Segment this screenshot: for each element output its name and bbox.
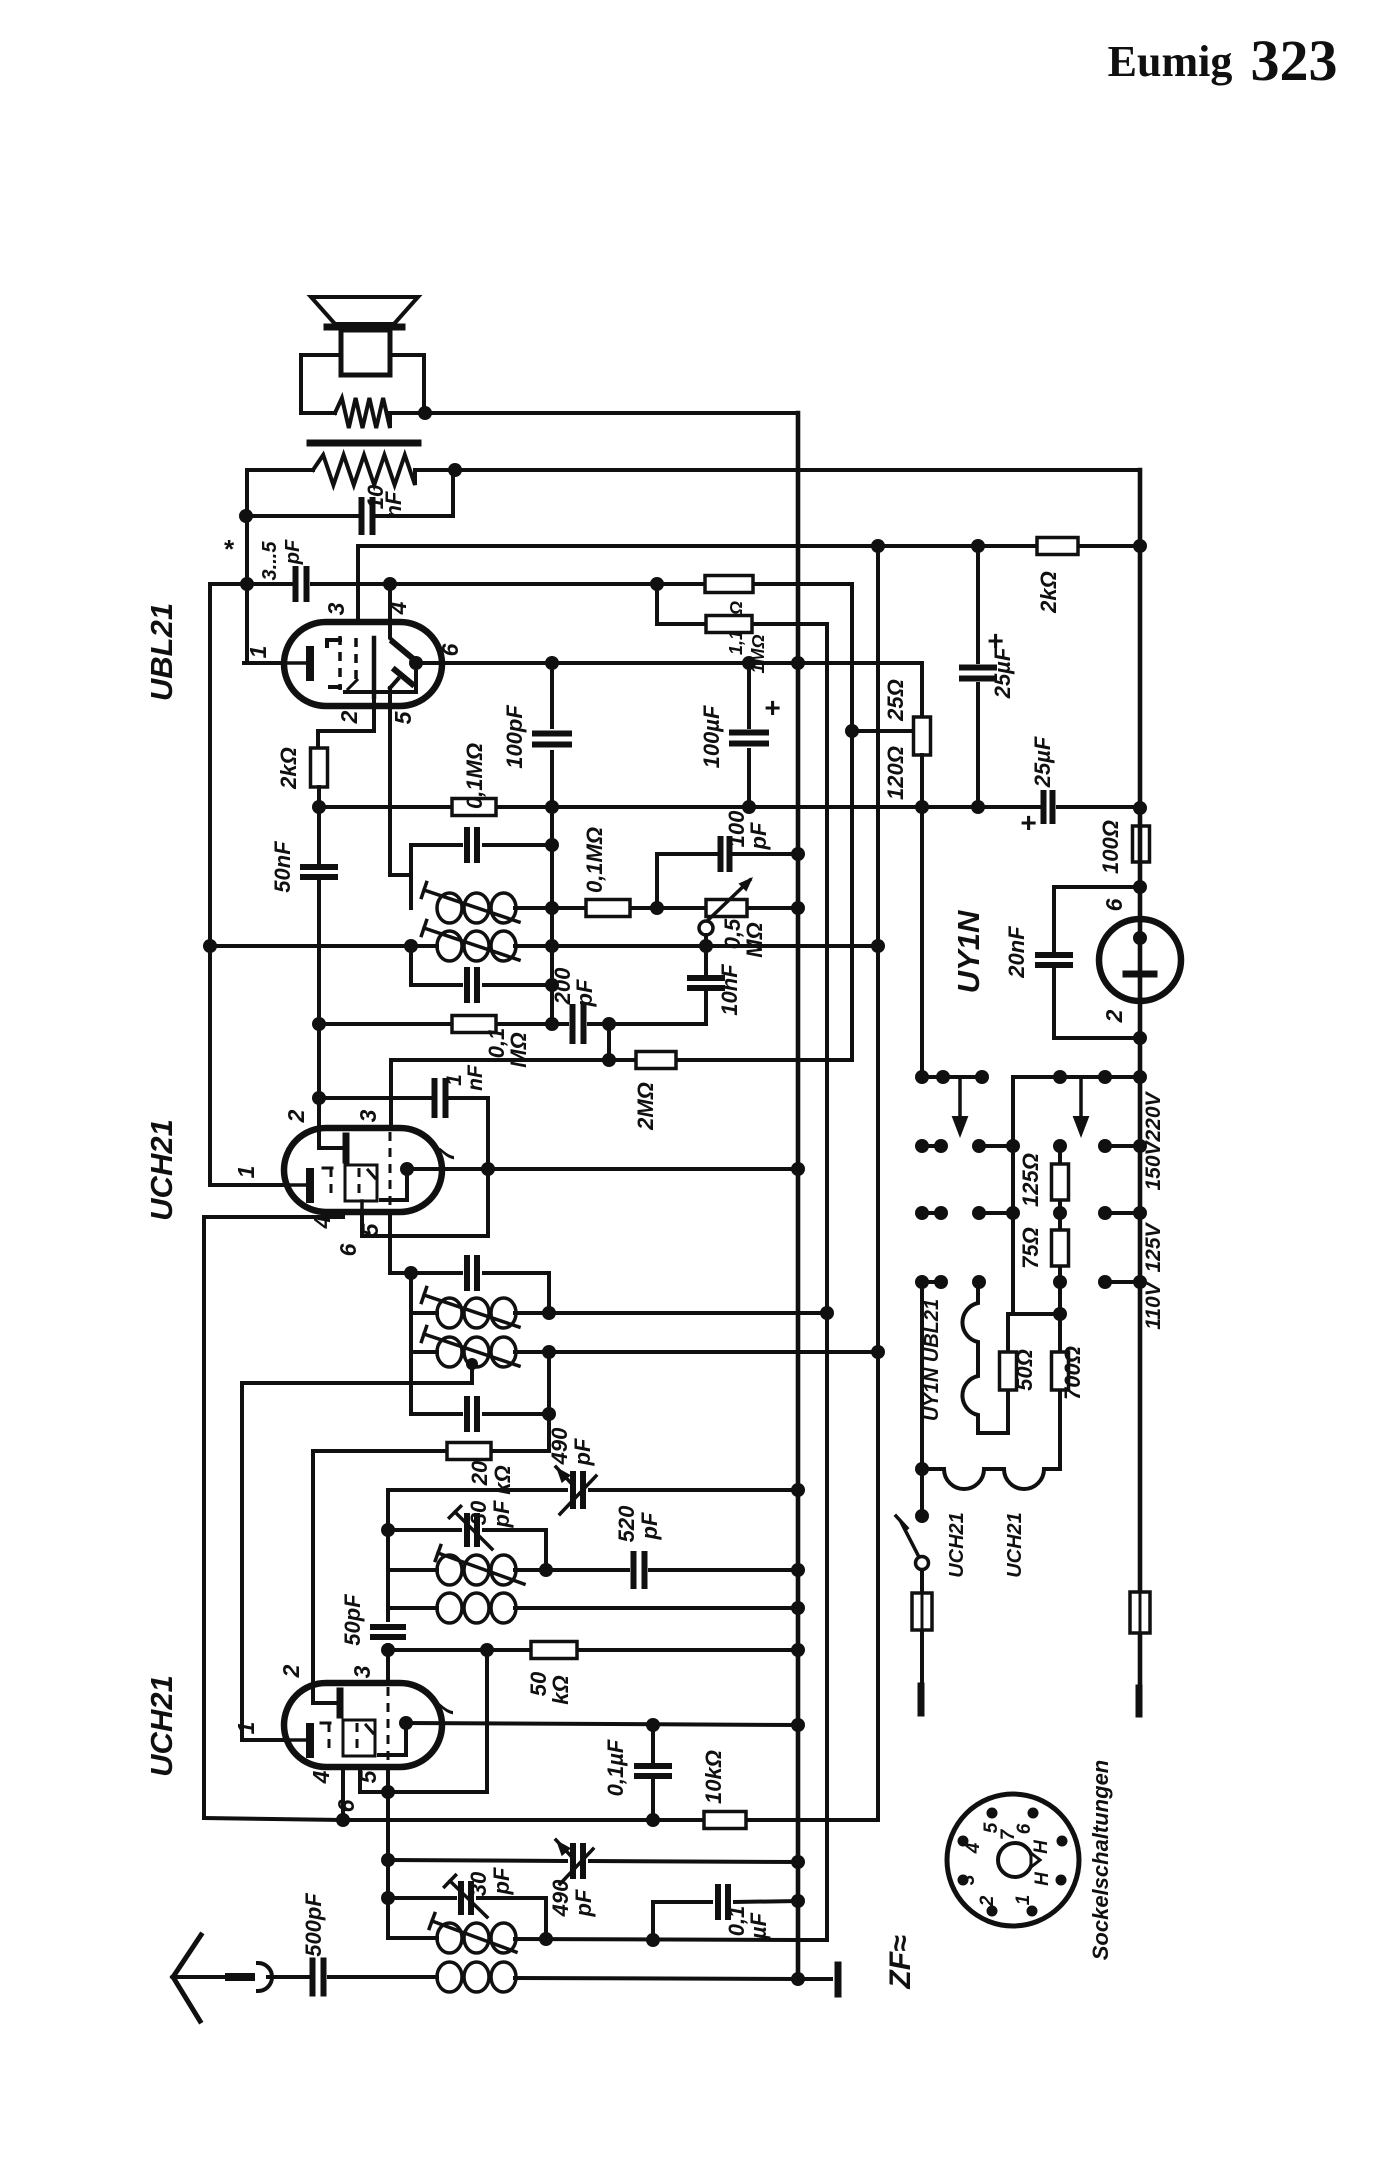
node y546 x=878 <box>871 539 885 553</box>
UCH21-2 pin5 bottom lead <box>386 1767 390 1860</box>
label Sockelschaltungen <box>1088 1760 1113 1961</box>
svg-text:MΩ: MΩ <box>506 1032 531 1068</box>
fuse left <box>912 1570 932 1686</box>
resistor 1M Ohm <box>706 616 768 674</box>
svg-text:30: 30 <box>466 1500 491 1525</box>
svg-text:25µF: 25µF <box>1030 736 1055 788</box>
IF T2 primary cap <box>411 830 552 860</box>
IF T3 secondary core <box>421 1326 519 1366</box>
capacitor 10nF (tone, across output transformer) <box>246 470 453 532</box>
tube UCH21 no.2 envelope <box>284 1683 442 1767</box>
svg-text:4: 4 <box>309 1215 335 1229</box>
svg-text:4: 4 <box>385 601 411 615</box>
tube UCH21 no.1 envelope <box>284 1128 442 1212</box>
svg-text:UCH21: UCH21 <box>946 1512 968 1578</box>
oscillator coil 1 <box>388 1555 546 1585</box>
capacitor 0,1uF (AF coupling) <box>603 1725 669 1820</box>
svg-text:125V: 125V <box>1142 1221 1165 1272</box>
selector arrow 2 <box>1073 1077 1090 1138</box>
wire x=922 down to selector <box>920 807 924 1077</box>
svg-text:0,1µF: 0,1µF <box>603 1739 628 1796</box>
node det x=657 <box>650 901 664 915</box>
svg-text:3: 3 <box>355 1109 381 1122</box>
capacitor 100pF (diode load) <box>502 663 569 1024</box>
oscillator coil 1 core <box>435 1545 524 1584</box>
svg-text:1: 1 <box>245 646 271 659</box>
resistor 700 Ohm <box>1052 1282 1086 1469</box>
UCH21-1 pin2 grid <box>319 1128 346 1160</box>
label UY1N <box>951 910 986 993</box>
capacitor 520pF <box>546 1505 798 1586</box>
svg-text:10nF: 10nF <box>717 964 742 1016</box>
IF T2 primary left vertical <box>409 845 413 908</box>
wire y=1352 to x=878 <box>549 1350 878 1354</box>
resistor 50 Ohm <box>1000 1314 1058 1433</box>
output transformer core <box>310 440 418 447</box>
svg-text:4: 4 <box>963 1842 984 1854</box>
svg-text:5: 5 <box>390 710 416 724</box>
node pin7-2 end <box>791 1718 805 1732</box>
svg-text:6: 6 <box>1101 898 1127 911</box>
wire osc left rail x=389 <box>386 1490 390 1684</box>
svg-text:4: 4 <box>308 1770 334 1784</box>
node y1490 x=798 <box>791 1483 805 1497</box>
wire screen bus y=807 <box>319 805 1140 809</box>
svg-text:5: 5 <box>355 1769 381 1783</box>
svg-text:125Ω: 125Ω <box>1018 1153 1043 1207</box>
node y1060 x=609 <box>602 1053 616 1067</box>
UCH21-1 pin5 bottom lead <box>390 1212 411 1273</box>
wire left drop x=247 (secondary/10nF to UBL21 pin1) <box>245 470 249 663</box>
selector row 220V <box>915 1070 1147 1146</box>
svg-text:2MΩ: 2MΩ <box>633 1082 658 1131</box>
svg-text:UCH21: UCH21 <box>144 1119 179 1221</box>
UCH21-1 pin4 lead <box>204 1212 343 1818</box>
svg-text:1: 1 <box>233 1722 259 1735</box>
resistor 50k Ohm <box>388 1642 798 1705</box>
UY1N pin numbers <box>1101 898 1127 1023</box>
svg-text:5: 5 <box>357 1222 383 1236</box>
node pin4 on y=584 <box>383 577 397 591</box>
UCH21-2 pin numbers <box>233 1664 458 1812</box>
UCH21-1 pin6 lead <box>360 1201 364 1212</box>
wire secondary to mains bus x=1140 <box>455 468 1140 472</box>
wire y=1060 <box>391 731 852 1060</box>
svg-text:6: 6 <box>333 1799 359 1812</box>
wire primary to right bus x=798 <box>425 411 798 415</box>
wire pin7 line y=1725 <box>406 1723 798 1725</box>
svg-text:pF: pF <box>282 539 304 565</box>
wire 120 Ohm bottom <box>920 755 924 807</box>
node 100pF-b right <box>791 847 805 861</box>
node T3 coil2 right <box>542 1345 556 1359</box>
antenna coupling coil <box>437 1962 798 1992</box>
node rectifier anode <box>1133 880 1147 894</box>
socket circle <box>947 1794 1079 1926</box>
node AVC x=210 <box>203 939 217 953</box>
resistor 100 Ohm (surge) <box>1098 546 1150 887</box>
svg-text:pF: pF <box>637 1512 662 1540</box>
IF T2 secondary coil <box>437 931 516 961</box>
svg-text:2: 2 <box>977 1895 998 1907</box>
node AF x=749 <box>742 656 756 670</box>
wire ground rail y=1820 <box>204 1352 878 1820</box>
UCH21-1 hexode grid dashes <box>323 1168 332 1199</box>
svg-text:25Ω: 25Ω <box>883 679 908 722</box>
UBL21 grid g2 (dashed) <box>348 638 357 689</box>
node pin7 line x=488 <box>481 1162 495 1176</box>
svg-text:pF: pF <box>746 822 771 850</box>
node y1024 x=552 <box>545 1017 559 1031</box>
node 0,1uF-ant right <box>791 1894 805 1908</box>
label UCH21 no.2 <box>144 1675 179 1777</box>
capacitor 50pF (osc grid) <box>340 1594 403 1646</box>
node T2 x=552 sec cap <box>545 978 559 992</box>
svg-text:1: 1 <box>1013 1895 1034 1906</box>
UBL21 cathode <box>284 650 310 677</box>
UCH21-2 pin1 wire <box>242 1738 284 1742</box>
trimmer 30pF (osc) <box>388 1500 546 1570</box>
UY1N anode pin6 <box>1133 887 1147 945</box>
capacitor 25uF (series, B+) <box>1020 736 1055 838</box>
resistor 120/25 Ohm tapped <box>883 679 931 800</box>
wire 2k to 50nF <box>317 787 321 865</box>
UCH21-1 pin3 grid line (dashed) <box>389 1132 392 1208</box>
heater UCH21+UCH21 meander <box>922 1469 1060 1578</box>
svg-text:3...5: 3...5 <box>259 541 281 581</box>
wire y=1024 <box>319 1022 660 1026</box>
node x389 y1650 <box>381 1643 395 1657</box>
node T2 x=552 top <box>545 838 559 852</box>
UBL21 diode 2 (pin 5) <box>390 670 412 706</box>
node AVC x=552 <box>545 939 559 953</box>
svg-text:1: 1 <box>233 1166 259 1179</box>
selector row 125V <box>915 1146 1147 1220</box>
trimmer 30pF (antenna) <box>388 1867 546 1940</box>
node x388 y1792 <box>381 1785 395 1799</box>
svg-text:220V: 220V <box>1142 1090 1165 1142</box>
IF T3 input cap 50pF <box>391 1258 549 1313</box>
tube UBL21 envelope <box>284 622 442 706</box>
node y546 x=1140 <box>1133 539 1147 553</box>
svg-text:pF: pF <box>489 1500 514 1528</box>
resistor 0,1M Ohm (a) <box>452 743 496 816</box>
svg-text:30: 30 <box>466 1871 491 1896</box>
output transformer primary winding <box>301 398 424 428</box>
svg-text:120Ω: 120Ω <box>883 746 908 800</box>
svg-text:Sockelschaltungen: Sockelschaltungen <box>1088 1760 1113 1961</box>
svg-text:50nF: 50nF <box>270 841 295 893</box>
svg-text:Eumig: Eumig <box>1108 37 1233 86</box>
UBL21 pin1 wire <box>244 584 284 663</box>
svg-text:+: + <box>987 625 1003 656</box>
node x389 y1530 <box>381 1523 395 1537</box>
svg-text:3: 3 <box>323 602 349 615</box>
svg-text:150V: 150V <box>1142 1139 1165 1190</box>
UCH21-2 pin7 anode <box>379 1716 413 1755</box>
wire main bus x=798 <box>796 413 801 1979</box>
svg-text:20: 20 <box>467 1460 492 1486</box>
UBL21 pin2 wire to cathode network <box>318 697 374 748</box>
IF T3 secondary tap <box>242 1358 478 1740</box>
svg-text:7: 7 <box>433 1147 459 1161</box>
mains cord right <box>1136 1688 1143 1714</box>
UBL21 diode cathode node pin6 <box>345 656 442 692</box>
node 10nF left <box>239 509 253 523</box>
node 50k left <box>480 1643 494 1657</box>
svg-text:+: + <box>1020 807 1036 838</box>
speaker LS <box>311 297 418 375</box>
node x388 y1860 <box>381 1853 395 1867</box>
node y1608 x=798 <box>791 1601 805 1615</box>
wire 50nF down to pin2 UCH21 <box>317 879 321 1128</box>
UCH21-1 cathode <box>284 1172 310 1199</box>
potentiometer 0,5M Ohm (volume) <box>657 877 798 958</box>
resistor 2M Ohm <box>633 1052 676 1131</box>
node y1862 x=798 <box>791 1855 805 1869</box>
node ant coil x=546 <box>539 1932 553 1946</box>
svg-text:1: 1 <box>443 1074 466 1086</box>
UCH21-2 pin2 grid <box>313 1683 340 1715</box>
node 50/700 top <box>1053 1307 1067 1321</box>
svg-text:ZF≈: ZF≈ <box>884 1935 917 1990</box>
antenna tuned coil <box>388 1923 798 1953</box>
node 1,1M branch <box>650 577 664 591</box>
node osc coil1 right <box>539 1563 553 1577</box>
svg-text:pF: pF <box>570 1438 595 1466</box>
svg-text:H: H <box>1032 1871 1053 1886</box>
mains switch <box>896 1509 929 1570</box>
svg-text:*: * <box>223 534 235 564</box>
node heater x=922 <box>915 1462 929 1476</box>
node y1570 x=798 <box>791 1563 805 1577</box>
UCH21-2 hexode grid dashes <box>321 1723 330 1754</box>
svg-text:pF: pF <box>489 1867 514 1895</box>
antenna tuned coil core <box>429 1913 516 1952</box>
node pin7 end <box>791 1162 805 1176</box>
UCH21-1 pin1 wire <box>210 584 284 1185</box>
selector arrow 1 <box>952 1077 969 1138</box>
node 25 Ohm tap <box>845 724 859 738</box>
tube UY1N envelope <box>1099 919 1181 1001</box>
svg-text:490: 490 <box>548 1879 573 1917</box>
label ZF <box>884 1935 917 1990</box>
svg-text:MΩ: MΩ <box>742 922 767 958</box>
asterisk footnote mark <box>223 534 235 564</box>
IF T2 primary core <box>421 882 519 922</box>
output transformer secondary winding <box>247 455 455 485</box>
labels selector voltages <box>1142 1090 1165 1329</box>
label UBL21 <box>144 603 179 701</box>
svg-text:110V: 110V <box>1142 1280 1165 1329</box>
heater UY1N+UBL21 meander <box>921 1282 1008 1433</box>
node y1352 x=878 <box>871 1345 885 1359</box>
svg-text:UCH21: UCH21 <box>144 1675 179 1777</box>
UBL21 pin3 lead (anode top) <box>356 546 360 622</box>
node pin4-2 <box>336 1813 350 1827</box>
svg-text:3: 3 <box>958 1874 979 1885</box>
IF T2 primary coil <box>437 893 516 923</box>
UCH21-1 pin numbers <box>233 1109 459 1256</box>
UCH21-2 pin3 grid line (dashed) <box>387 1687 390 1763</box>
IF T3 secondary coil <box>411 1313 549 1367</box>
wire y=1313 to x=827 <box>549 1311 827 1315</box>
wire 25 Ohm tap line <box>852 729 914 733</box>
node y1650 x=798 <box>791 1643 805 1657</box>
wire det to 100pF line <box>657 854 798 908</box>
title Eumig 323 <box>1108 28 1338 93</box>
svg-text:520: 520 <box>614 1505 639 1542</box>
svg-text:nF: nF <box>381 491 406 518</box>
svg-text:100pF: 100pF <box>502 705 527 769</box>
svg-text:100Ω: 100Ω <box>1098 820 1123 874</box>
svg-text:+: + <box>764 692 780 723</box>
svg-text:2kΩ: 2kΩ <box>1036 571 1061 614</box>
socket pins <box>958 1808 1068 1917</box>
wire coil1 to x=552 <box>515 906 552 910</box>
capacitor 10nF (det output) <box>660 946 742 1024</box>
UBL21 pin5 wire into T2 <box>390 706 411 875</box>
svg-text:500pF: 500pF <box>301 1893 326 1957</box>
UCH21-2 pin4 lead <box>341 1767 345 1820</box>
wire x=878 bus <box>876 546 880 1352</box>
svg-text:nF: nF <box>464 1064 487 1091</box>
UBL21 pin numbers <box>245 601 463 724</box>
node screen x=552 <box>545 800 559 814</box>
svg-text:700Ω: 700Ω <box>1060 1346 1085 1400</box>
UCH21-2 pin6 lead <box>360 1766 388 1792</box>
UCH21-1 pin7 anode <box>381 1162 414 1200</box>
UCH21-1 triode box <box>345 1165 377 1201</box>
wire x=922 heater <box>920 1282 924 1516</box>
svg-text:75Ω: 75Ω <box>1018 1227 1043 1269</box>
svg-text:kΩ: kΩ <box>548 1675 573 1704</box>
node ant coil x=653 <box>646 1933 660 1947</box>
resistor 20k Ohm (osc grid) <box>313 1414 549 1684</box>
resistor 75 Ohm <box>1018 1213 1069 1282</box>
svg-text:pF: pF <box>571 1889 596 1917</box>
node AVC x=409 <box>404 939 418 953</box>
IF T2 secondary core <box>421 920 519 960</box>
antenna symbol <box>173 1935 272 2021</box>
svg-text:0,1MΩ: 0,1MΩ <box>582 827 607 893</box>
node y1024 x=609 <box>602 1017 616 1031</box>
UCH21-2 cathode <box>284 1727 310 1754</box>
svg-text:7: 7 <box>998 1828 1019 1840</box>
UBL21 pin4 lead and diode 1 <box>390 584 411 657</box>
resistor 125 Ohm <box>1018 1146 1069 1213</box>
svg-text:7: 7 <box>432 1702 458 1716</box>
wire anode supply y=546 <box>358 544 1140 548</box>
capacitor 0,1uF (antenna section) <box>653 1887 798 1940</box>
node x=247 on grid line <box>240 577 254 591</box>
socket pin labels <box>958 1822 1053 1907</box>
svg-text:50Ω: 50Ω <box>1012 1349 1037 1391</box>
wire mains bus x=1140 <box>1138 470 1143 1688</box>
wire AVC line y=946 <box>210 944 879 948</box>
node x=318 y=1024 <box>312 1017 326 1031</box>
wire x388 1860-1938 <box>386 1860 390 1938</box>
node AF x=552 <box>545 656 559 670</box>
wire AF/diode line y=662 <box>416 663 922 717</box>
wire triode grid x=487 <box>388 1650 487 1792</box>
svg-text:0,1MΩ: 0,1MΩ <box>462 743 487 809</box>
resistor 0,1M Ohm (c) <box>452 1016 531 1068</box>
capacitor 500pF (antenna) <box>268 1893 437 1994</box>
UBL21 grid g1 (dashed) <box>327 636 340 690</box>
svg-text:2: 2 <box>283 1109 309 1123</box>
svg-text:UY1N: UY1N <box>951 910 986 993</box>
svg-text:3: 3 <box>349 1665 375 1678</box>
node 0,1uF bottom <box>646 1813 660 1827</box>
node ground junction <box>791 1972 805 1986</box>
svg-text:2: 2 <box>336 710 362 724</box>
node T3 in <box>404 1266 418 1280</box>
capacitor 200pF <box>550 967 597 1041</box>
svg-text:490: 490 <box>547 1427 572 1465</box>
IF T2 secondary cap <box>411 946 552 1000</box>
node x=318 y=1098 <box>312 1091 326 1105</box>
mains cord left <box>918 1686 925 1713</box>
wire branch y=624 (to 1M) <box>657 584 827 1313</box>
node T2 x=552 mid <box>545 901 559 915</box>
resistor 1,1M Ohm <box>705 576 753 656</box>
node T3 cap2 right <box>542 1407 556 1421</box>
svg-text:6: 6 <box>335 1243 361 1256</box>
resistor 2k Ohm (b) <box>1036 538 1078 614</box>
wire speaker voice-coil loop <box>301 355 424 413</box>
svg-text:UBL21: UBL21 <box>144 603 179 701</box>
svg-text:100µF: 100µF <box>699 705 724 768</box>
node AF x=798 <box>791 656 805 670</box>
node screen x=749 <box>742 800 756 814</box>
svg-text:µF: µF <box>746 1912 771 1940</box>
svg-text:6: 6 <box>437 643 463 656</box>
capacitor 50nF <box>270 841 335 893</box>
node y1313 x=827 <box>820 1306 834 1320</box>
node speaker primary to B+ bus <box>418 406 432 420</box>
trimmer 490pF (IF shunt) <box>388 1427 798 1514</box>
capacitor 25uF (cathode shunt) <box>962 546 1015 807</box>
node secondary top <box>448 463 462 477</box>
svg-text:323: 323 <box>1251 28 1338 93</box>
svg-text:50pF: 50pF <box>340 1594 365 1646</box>
capacitor 1nF <box>435 1064 488 1115</box>
node pot right <box>791 901 805 915</box>
wire grid line y=584 (to 1,1M) <box>358 584 852 731</box>
selector row 150V <box>915 1139 1147 1153</box>
svg-text:UY1N UBL21: UY1N UBL21 <box>921 1299 943 1421</box>
UY1N cathode pin2 <box>1126 974 1154 1038</box>
fuse right <box>1130 1592 1150 1633</box>
svg-text:2: 2 <box>278 1664 304 1678</box>
IF T3 primary core <box>421 1287 519 1327</box>
svg-text:pF: pF <box>572 979 597 1007</box>
node screen x=978 <box>971 800 985 814</box>
resistor 10k Ohm <box>701 1750 746 1828</box>
capacitor 100pF (b) <box>721 810 772 869</box>
node y546 x=978 <box>971 539 985 553</box>
node y807 x=1140 <box>1133 801 1147 815</box>
oscillator coil 2 (feedback) <box>388 1593 798 1623</box>
capacitor 20nF (RF filter) <box>1004 887 1140 1038</box>
IF T3 secondary cap <box>411 1352 549 1429</box>
UBL21 anode (to pin 2) <box>372 638 377 697</box>
trimmer capacitor 3...5pF <box>210 539 358 599</box>
chassis ground <box>798 1965 838 1994</box>
wire pin7 line y=1169 <box>407 1167 798 1171</box>
trimmer 490pF (antenna) <box>388 1840 798 1917</box>
